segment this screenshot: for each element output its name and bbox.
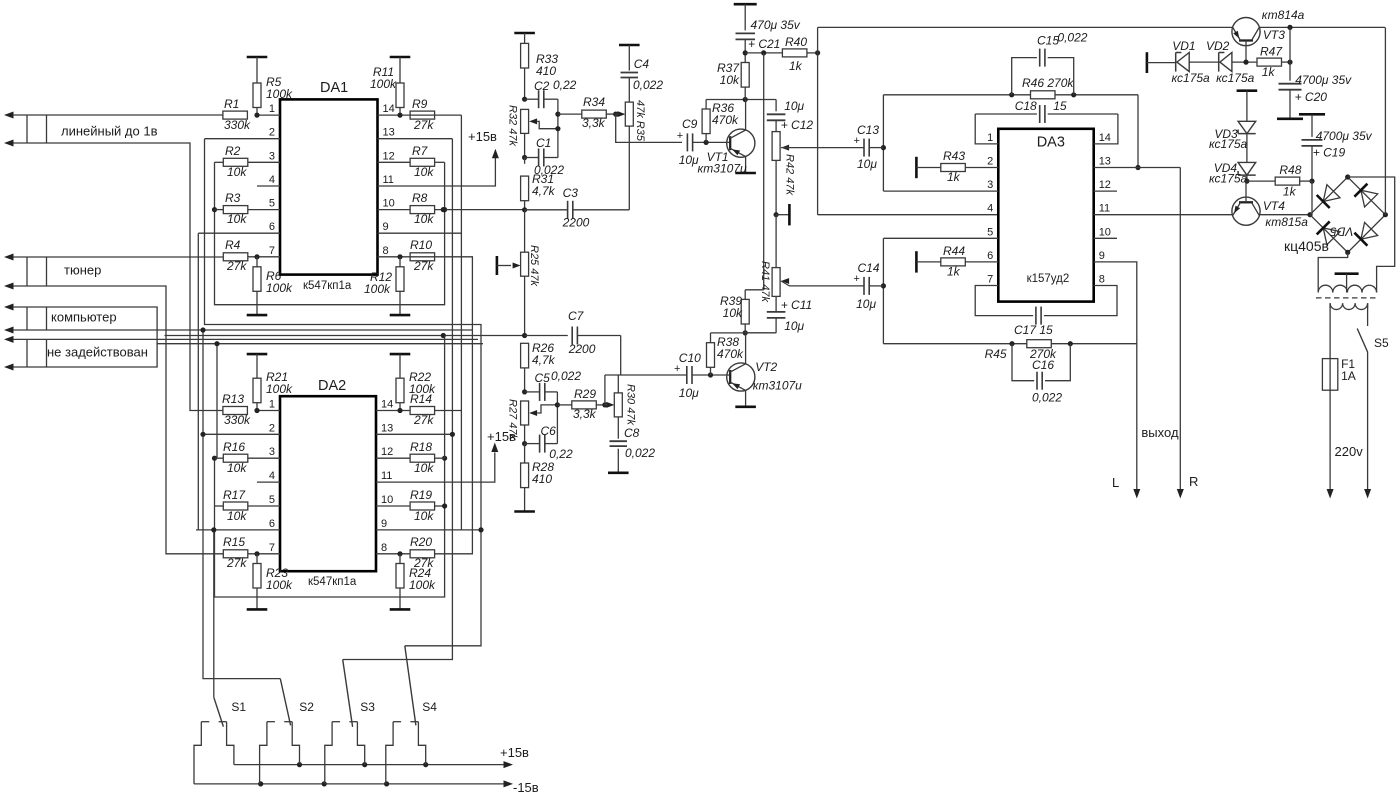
wire компьютер ch2 bus [13,329,472,331]
svg-text:10k: 10k [227,212,247,226]
label R32 47k [507,105,519,146]
wire линейный ch1 to R1 [13,114,223,116]
svg-text:27k: 27k [413,118,434,132]
svg-text:S2: S2 [299,700,314,714]
op-amp DA3 к157уд2 body [998,129,1093,302]
svg-text:0,022: 0,022 [1032,391,1062,405]
capacitor C13 10μ [854,123,880,171]
svg-text:R1: R1 [224,97,239,111]
svg-text:27k: 27k [226,259,247,273]
wire DA2 signal loop [212,456,447,597]
svg-text:S1: S1 [231,700,246,714]
wire pin1 DA1 [257,114,280,116]
wire primary to fuse [1329,303,1331,358]
potentiometer R27 47k [521,401,558,425]
svg-text:4,7k: 4,7k [532,353,556,367]
svg-text:10k: 10k [227,165,247,179]
wire pin8 DA1 [378,256,411,258]
bridge rectifier VD5 кц405в [1310,174,1388,255]
power bar R5 [247,57,268,83]
svg-text:2: 2 [987,156,993,168]
resistor R37 10k [741,53,749,100]
wire pin12 DA1 [378,161,411,163]
wire pin11 DA3 to VT4 [1094,214,1233,216]
wire R35 to C3 [628,126,630,210]
wire R48 node to bridge [1311,181,1313,215]
transformer T1 primary [1330,303,1368,309]
wire R22 to pin14 [397,403,402,413]
wire bus to R25 [524,210,526,253]
svg-text:C13: C13 [857,123,879,137]
svg-text:C17 15: C17 15 [1014,323,1053,337]
resistor R15 27k [223,535,248,570]
resistor R24 100k [396,564,436,593]
label R36 [712,101,739,127]
label не задействован [47,345,148,360]
wire R42 to R41 [775,215,777,268]
label C18 [1015,99,1067,113]
wire pin5 DA2 [248,505,280,507]
svg-text:кт3107и: кт3107и [753,379,802,393]
svg-text:R47: R47 [1260,45,1283,59]
transistor VT1 кт3107и [727,100,756,174]
svg-text:+ C12: + C12 [781,118,814,132]
power bar R22 [390,354,411,378]
label кц405в [1284,238,1329,254]
svg-text:15: 15 [1053,99,1067,113]
wire R21 to pin1 [254,403,259,413]
resistor R3 10k [223,191,248,226]
svg-text:-15в: -15в [513,780,539,795]
label R38 [717,335,744,361]
transistor VT2 кт3107и [727,333,756,407]
wire VT2 emitter node [711,332,777,334]
svg-text:L: L [1112,475,1119,490]
svg-text:+ C11: + C11 [781,298,812,312]
potentiometer R42 47k [772,132,789,161]
svg-text:27k: 27k [413,259,434,273]
resistor R6 100k [253,267,293,295]
wire pin1 DA2 [257,410,280,412]
svg-text:10: 10 [1099,226,1111,238]
label VT2 [753,360,802,393]
wire R40 to supply rail [807,50,820,55]
svg-text:R48: R48 [1279,163,1301,177]
capacitor C17 15 [975,286,1117,325]
resistor R1 330k [223,97,251,132]
fuse F1 1A [1322,359,1337,391]
wire pin5 DA1 [248,209,280,211]
label VT4 [1263,199,1308,229]
wire ch1 bus to R31 node [435,207,525,212]
svg-text:1: 1 [269,399,275,411]
label C12 [781,99,814,132]
svg-text:3: 3 [987,179,993,191]
label к157уд2 [1027,273,1070,285]
wire pin6 DA2 [196,529,280,531]
ground R6 [247,291,268,315]
label R output [1189,474,1198,489]
wire ch2 bus to R26 node [165,333,525,458]
svg-text:470k: 470k [712,113,739,127]
capacitor C3 2200 [525,201,630,219]
svg-text:R7: R7 [412,144,429,158]
label выход [1141,425,1179,440]
label S5 [1374,336,1389,350]
svg-text:+: + [674,363,680,375]
transistor VT3 кт814а [1232,18,1260,63]
switch S3 [325,660,365,784]
label VD1 [1172,39,1211,85]
label VD4 [1209,161,1248,186]
input connector не задействован [4,336,47,371]
svg-text:2: 2 [269,127,275,139]
svg-text:0,22: 0,22 [549,447,573,461]
svg-text:DA2: DA2 [318,378,346,394]
input connector тюнер [4,254,47,290]
svg-text:кс175а: кс175а [1172,71,1211,85]
wire R32 to C1 node [522,133,527,160]
wire pin3 DA3 [883,190,998,192]
wire R45 feedback ch2 [883,341,1136,346]
wire top supply rail [818,26,1233,28]
resistor R21 100k [253,370,293,403]
label -15в rail [513,780,539,795]
svg-text:1: 1 [987,132,993,144]
terminal VD1 [1147,52,1176,73]
resistor R11 100k [370,65,404,108]
resistor R43 1k [916,157,998,178]
svg-text:14: 14 [381,399,393,411]
svg-text:C1: C1 [536,136,551,150]
wire pin9 DA2 [376,529,481,531]
svg-text:14: 14 [383,103,395,115]
svg-text:к157уд2: к157уд2 [1027,273,1070,285]
resistor R28 410 [521,444,555,488]
svg-text:470μ 35v: 470μ 35v [751,18,801,32]
svg-text:3: 3 [269,446,275,458]
svg-text:5: 5 [987,226,993,238]
label F1 [1341,357,1356,383]
switch S2 [260,679,300,784]
label C1 [534,136,564,177]
wire R9 to R14 [410,115,461,410]
wire node to R40 [745,50,782,55]
label R37 [717,61,740,87]
svg-text:VT2: VT2 [755,360,777,374]
resistor R39 10k [741,290,749,333]
svg-text:+: + [854,135,860,147]
capacitor C19 4700μ 35v [1302,129,1373,160]
svg-text:10μ: 10μ [856,297,876,311]
wire pin11 DA2 to +15в [376,443,498,483]
capacitor C2 0,22 [525,90,558,108]
svg-text:100k: 100k [266,578,293,592]
wire bridge to top rail [1384,27,1386,214]
resistor R23 100k [253,564,293,593]
label S2 [299,700,314,714]
potentiometer R32 47k [521,109,558,133]
wire VT4 to bridge [1259,212,1312,217]
capacitor C16 0,022 [1012,344,1070,390]
svg-text:100k: 100k [266,281,293,295]
svg-text:R41 47k: R41 47k [759,261,771,302]
svg-text:10μ: 10μ [679,386,699,400]
svg-text:R8: R8 [412,191,428,205]
label +15в rail [500,745,529,760]
wire pin12 DA2 [376,457,410,459]
svg-text:2200: 2200 [562,216,590,230]
svg-text:8: 8 [381,542,387,554]
label S1 [231,700,246,714]
wire supply riser [817,27,819,214]
wire pin4 DA2 stub [257,481,280,483]
junction R10 R12 [397,254,402,267]
capacitor C7 2200 [525,327,621,376]
svg-text:R44: R44 [943,244,965,258]
svg-text:R42 47k: R42 47k [784,154,796,195]
svg-text:14: 14 [1099,132,1111,144]
wire pin3 DA2 [248,457,280,459]
wire R11 to pin14 [397,108,402,118]
svg-text:+15в: +15в [468,129,497,144]
svg-text:1k: 1k [789,59,803,73]
resistor R12 100k [364,267,404,296]
svg-text:R18: R18 [410,440,432,454]
svg-text:0,022: 0,022 [551,369,581,383]
svg-text:кс175а: кс175а [1216,71,1255,85]
svg-text:R13: R13 [222,392,244,406]
svg-text:R40: R40 [785,35,807,49]
wire R47 to C20 [1282,60,1293,65]
wire control pin9 chain right [460,115,462,530]
svg-text:11: 11 [383,174,394,186]
wire to C9 [616,114,682,142]
svg-text:410: 410 [532,472,552,486]
svg-text:R: R [1189,474,1198,489]
label C17 [1014,323,1053,337]
wire R26 to C5 node [522,368,527,395]
label C2 [534,78,577,93]
resistor R44 1k [916,251,998,272]
wire не задействован ch2 [13,344,157,367]
svg-text:10k: 10k [414,461,434,475]
pin numbers DA1 [269,103,395,257]
wire mains left [1327,390,1334,498]
svg-text:1A: 1A [1341,369,1356,383]
svg-text:R2: R2 [225,144,241,158]
svg-text:+: + [854,273,860,285]
svg-text:R29: R29 [574,387,596,401]
resistor R29 3,3k [557,401,607,409]
svg-text:C10: C10 [679,351,701,365]
svg-text:5: 5 [269,494,275,506]
label C7 [568,309,596,356]
wire to C10 [605,374,687,376]
svg-text:+: + [677,130,683,142]
junction R4 R6 [254,254,259,267]
resistor R19 10k [410,488,435,523]
label DA2 [318,378,346,394]
resistor R9 27k [410,97,435,132]
wire rail to C20 [1289,27,1291,80]
label VT1 [698,150,747,176]
ground R28 [514,488,535,512]
svg-text:C18: C18 [1015,99,1037,113]
wire pin8 DA2 [376,553,410,555]
svg-text:VD5: VD5 [1330,225,1354,239]
svg-text:27k: 27k [413,413,434,427]
label C16 [1032,358,1062,405]
svg-text:R3: R3 [225,191,241,205]
svg-text:VD1: VD1 [1172,39,1195,53]
svg-text:47k R35: 47k R35 [634,100,646,142]
resistor R17 10k [223,488,248,523]
svg-text:6: 6 [269,221,275,233]
wire bridge to secondary right [1348,177,1395,289]
wire pin13 DA3 [1094,167,1181,169]
svg-text:5: 5 [269,198,275,210]
svg-text:компьютер: компьютер [51,310,117,325]
ground R42 R41 [774,160,790,225]
label C3 [562,186,590,230]
power bar R21 [247,354,268,378]
resistor R47 1k [1257,45,1283,80]
wire компьютер to R16 [214,341,219,458]
label +15в DA2 [487,429,516,444]
wire +15в rail [234,761,513,768]
svg-text:4700μ 35v: 4700μ 35v [1295,73,1352,87]
resistor R18 10k [410,440,435,475]
svg-text:кс175а: кс175а [1209,137,1248,151]
svg-text:кт3107и: кт3107и [698,162,747,176]
svg-text:6: 6 [987,250,993,262]
input connector компьютер [4,304,47,334]
svg-text:10k: 10k [227,461,247,475]
svg-text:1k: 1k [1262,65,1276,79]
svg-text:+ C20: + C20 [1295,90,1328,104]
wire ch2 input node [881,238,886,343]
switch S5 [1357,303,1371,498]
svg-text:4: 4 [987,203,993,215]
wire C13 to node [869,147,883,149]
pin numbers DA3 [987,132,1111,286]
svg-text:выход: выход [1141,425,1179,440]
wire output L [1094,262,1141,499]
label C6 [541,424,573,461]
junction R20 R24 [397,551,402,563]
resistor R34 3,3k [558,110,618,118]
svg-text:R14: R14 [410,392,432,406]
resistor R36 470k [702,100,710,143]
label R27 47k [507,399,519,440]
svg-text:10k: 10k [723,306,743,320]
svg-text:0,22: 0,22 [553,78,577,92]
capacitor C6 0,22 [525,435,558,453]
wire pin10 DA1 [378,209,435,211]
svg-text:R32 47k: R32 47k [507,105,519,146]
svg-text:R20: R20 [410,535,432,549]
label к547кп1а DA1 [303,280,352,292]
wire pin2 DA1 [205,138,281,140]
wire pin2 DA2 [205,433,281,435]
svg-text:9: 9 [381,518,387,530]
label R25 47k [528,245,540,286]
zener VD1 кс175а [1176,53,1219,72]
transformer core [1316,297,1378,299]
label +15в DA1 [468,129,497,144]
wire не задействован ch1 bus [13,338,478,340]
capacitor C4 0,022 [619,45,663,92]
wire C9 to VT1 base [693,140,731,145]
resistor R14 27k [410,392,435,427]
switch S4 [386,646,426,784]
label C15 [1037,31,1088,48]
wire R5 to pin1 [254,108,259,118]
power bar VD3 [1237,91,1258,122]
zener VD2 кс175а [1219,53,1258,72]
input connector линейный до 1в [4,112,47,147]
wire pin9 DA1 [378,232,462,234]
svg-text:C8: C8 [624,426,640,440]
ground R24 [390,588,411,609]
svg-text:7: 7 [987,274,993,286]
svg-text:C4: C4 [634,57,650,71]
svg-text:2: 2 [269,422,275,434]
switch S1 [194,697,234,784]
svg-text:10k: 10k [720,73,740,87]
capacitor C15 0,022 [1012,49,1074,95]
wire R10 to R20 [410,257,472,554]
wire pin7 DA2 [248,553,280,555]
label R34 [582,95,606,130]
svg-text:C7: C7 [568,309,585,323]
capacitor C21 470μ 35v [736,18,801,51]
label VD2 [1206,39,1255,85]
wire -15в rail [194,780,513,787]
svg-text:3,3k: 3,3k [582,116,606,130]
svg-text:27k: 27k [226,556,247,570]
label R41 47k [759,261,771,302]
wire R31 to bus [522,201,527,213]
label компьютер [51,310,117,325]
potentiometer R41 47k [772,268,864,297]
label R42 47k [784,154,796,195]
svg-text:C9: C9 [682,117,698,131]
wire control S2 to pin2 DA2 [200,327,280,678]
label R29 [573,387,597,421]
svg-text:9: 9 [1099,250,1105,262]
transformer T1 secondary [1318,285,1376,292]
svg-text:470k: 470k [717,347,744,361]
wire pin14 DA1 [378,114,411,116]
capacitor C10 10μ [674,351,701,400]
wire R42 wiper to C13 [789,147,863,149]
svg-text:100k: 100k [364,282,391,296]
capacitor C9 10μ [677,117,699,167]
svg-text:C2: C2 [534,79,550,93]
wire pin10 DA2 [376,505,435,507]
capacitor C14 10μ [854,261,880,311]
svg-text:DA1: DA1 [320,80,348,96]
wire VT3 to rectifier rail [1259,25,1385,30]
svg-text:4,7k: 4,7k [532,184,556,198]
svg-text:12: 12 [1099,179,1111,191]
pin numbers DA2 [269,399,393,554]
wire supply to R39 [745,53,764,290]
transistor VT4 кт815а [1232,181,1260,225]
svg-text:10μ: 10μ [679,153,699,167]
